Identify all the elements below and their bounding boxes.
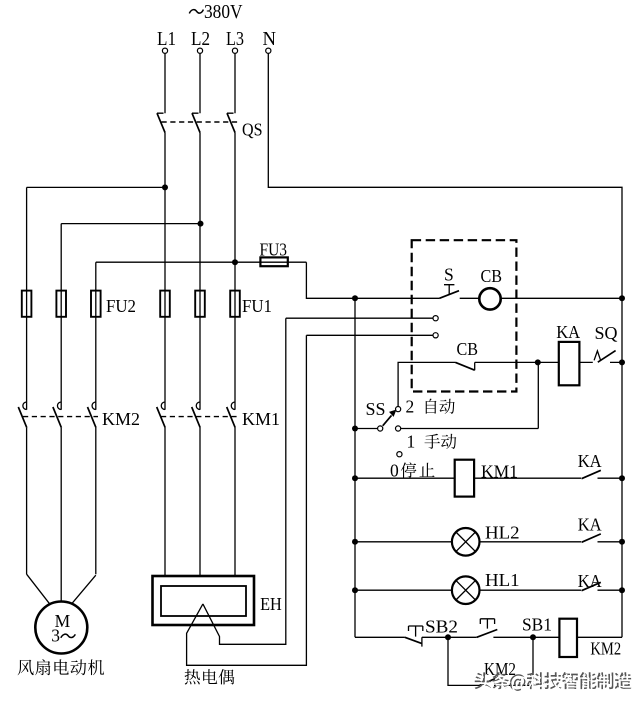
svg-text:EH: EH [260, 594, 282, 614]
svg-text:SB2: SB2 [425, 617, 458, 637]
svg-text:2: 2 [406, 397, 415, 417]
svg-text:FU2: FU2 [106, 296, 136, 316]
svg-text:N: N [263, 29, 277, 50]
svg-text:380V: 380V [204, 2, 243, 23]
svg-text:CB: CB [481, 266, 503, 286]
svg-text:SB1: SB1 [522, 615, 552, 635]
svg-text:KA: KA [556, 322, 580, 342]
svg-text:KM1: KM1 [481, 462, 518, 482]
svg-text:KM2: KM2 [590, 638, 621, 658]
svg-text:KM2: KM2 [102, 409, 140, 429]
svg-text:KA: KA [578, 571, 602, 591]
svg-text:3: 3 [51, 625, 60, 645]
svg-text:SS: SS [366, 399, 386, 419]
svg-text:1: 1 [407, 432, 416, 452]
svg-text:HL1: HL1 [485, 570, 520, 590]
svg-text:KM1: KM1 [242, 409, 280, 429]
svg-text:L1: L1 [157, 29, 176, 50]
svg-text:KA: KA [578, 451, 602, 471]
svg-text:KA: KA [578, 514, 602, 534]
svg-text:SQ: SQ [595, 323, 618, 343]
svg-text:CB: CB [457, 339, 479, 359]
svg-text:QS: QS [242, 120, 263, 140]
svg-text:L3: L3 [226, 29, 244, 50]
svg-text:L2: L2 [191, 29, 210, 50]
svg-text:FU3: FU3 [260, 240, 288, 260]
svg-text:HL2: HL2 [485, 522, 520, 542]
svg-text:S: S [444, 265, 454, 285]
svg-text:0: 0 [390, 460, 399, 480]
svg-text:FU1: FU1 [242, 296, 272, 316]
